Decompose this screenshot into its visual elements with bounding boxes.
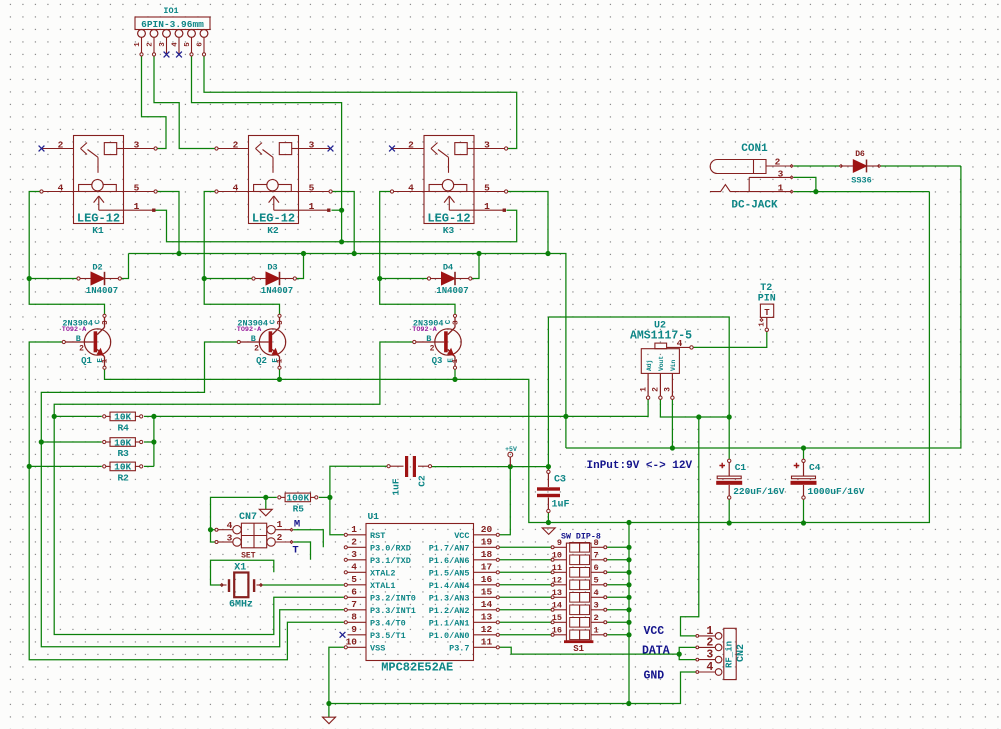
- svg-text:16: 16: [552, 626, 562, 636]
- svg-text:5: 5: [134, 182, 140, 193]
- svg-text:T2: T2: [760, 283, 772, 294]
- svg-text:5: 5: [594, 576, 599, 586]
- svg-text:P3.1/TXD: P3.1/TXD: [370, 556, 411, 566]
- svg-text:5: 5: [351, 574, 357, 585]
- svg-text:CON1: CON1: [741, 143, 768, 155]
- svg-text:R2: R2: [117, 472, 129, 483]
- svg-text:3: 3: [102, 320, 110, 325]
- svg-text:3: 3: [594, 601, 599, 611]
- svg-text:M: M: [294, 519, 300, 531]
- svg-text:D2: D2: [92, 262, 102, 272]
- svg-text:6: 6: [196, 42, 204, 47]
- svg-text:B: B: [76, 334, 81, 344]
- svg-text:C: C: [445, 319, 453, 324]
- svg-text:CN2: CN2: [736, 644, 747, 662]
- svg-text:C4: C4: [809, 462, 821, 473]
- svg-text:11: 11: [481, 637, 493, 648]
- svg-text:6: 6: [351, 587, 357, 598]
- svg-text:3: 3: [227, 532, 233, 543]
- svg-text:VSS: VSS: [370, 644, 385, 654]
- svg-text:10: 10: [346, 637, 358, 648]
- svg-text:C: C: [269, 319, 277, 324]
- svg-text:1000uF/16V: 1000uF/16V: [808, 486, 865, 497]
- svg-text:2: 2: [146, 42, 154, 47]
- svg-text:K1: K1: [92, 225, 104, 236]
- svg-text:P1.1/AN1: P1.1/AN1: [429, 619, 470, 629]
- svg-text:R4: R4: [117, 422, 129, 433]
- svg-text:5: 5: [484, 182, 490, 193]
- svg-text:R3: R3: [117, 448, 129, 459]
- svg-text:2: 2: [58, 139, 64, 150]
- svg-text:2: 2: [277, 532, 283, 543]
- svg-text:14: 14: [481, 599, 493, 610]
- svg-text:220uF/16V: 220uF/16V: [733, 486, 785, 497]
- svg-text:8: 8: [351, 612, 357, 623]
- svg-text:+5V: +5V: [505, 446, 517, 453]
- svg-text:2: 2: [233, 139, 239, 150]
- svg-text:SET: SET: [241, 552, 256, 561]
- svg-text:12: 12: [552, 576, 562, 586]
- svg-text:5: 5: [309, 182, 315, 193]
- svg-text:4: 4: [677, 338, 683, 349]
- svg-text:C3: C3: [554, 475, 566, 486]
- svg-text:4: 4: [233, 182, 239, 193]
- svg-text:MPC82E52AE: MPC82E52AE: [381, 660, 453, 674]
- svg-text:4: 4: [351, 562, 357, 573]
- svg-text:1N4007: 1N4007: [261, 286, 293, 296]
- svg-text:TO92-A: TO92-A: [62, 326, 87, 334]
- svg-text:U1: U1: [368, 511, 380, 522]
- svg-text:Adj: Adj: [646, 360, 653, 371]
- svg-text:P1.7/AN7: P1.7/AN7: [429, 544, 470, 554]
- svg-text:TO92-A: TO92-A: [237, 326, 262, 334]
- svg-text:10K: 10K: [114, 412, 131, 423]
- svg-text:Q2: Q2: [256, 356, 267, 366]
- svg-text:4: 4: [706, 661, 713, 674]
- svg-text:P3.3/INT1: P3.3/INT1: [370, 606, 416, 616]
- svg-text:1: 1: [452, 358, 460, 363]
- svg-text:17: 17: [481, 562, 493, 573]
- svg-text:P1.0/AN0: P1.0/AN0: [429, 631, 470, 641]
- svg-text:1: 1: [639, 387, 648, 392]
- svg-text:3: 3: [351, 549, 357, 560]
- svg-text:5: 5: [184, 42, 192, 47]
- svg-text:19: 19: [481, 537, 493, 548]
- svg-text:20: 20: [481, 524, 493, 535]
- svg-text:DC-JACK: DC-JACK: [731, 200, 778, 212]
- svg-text:AMS1117-5: AMS1117-5: [630, 329, 692, 342]
- svg-text:XTAL1: XTAL1: [370, 581, 396, 591]
- svg-text:1: 1: [594, 626, 599, 636]
- svg-text:13: 13: [481, 612, 493, 623]
- svg-text:T: T: [292, 544, 298, 556]
- svg-text:2: 2: [775, 156, 781, 167]
- svg-text:3: 3: [453, 320, 461, 325]
- svg-text:Q3: Q3: [432, 356, 443, 366]
- svg-text:3: 3: [159, 42, 167, 47]
- svg-text:7: 7: [594, 551, 599, 561]
- svg-text:10: 10: [552, 551, 562, 561]
- svg-text:R5: R5: [293, 503, 305, 514]
- svg-text:1N4007: 1N4007: [436, 286, 468, 296]
- svg-text:8: 8: [594, 538, 599, 548]
- svg-text:4: 4: [227, 520, 233, 531]
- svg-text:CN7: CN7: [239, 512, 257, 523]
- svg-text:4: 4: [408, 182, 414, 193]
- svg-text:P3.0/RXD: P3.0/RXD: [370, 544, 411, 554]
- svg-text:4: 4: [171, 42, 179, 47]
- svg-text:RF_in: RF_in: [725, 641, 735, 668]
- svg-text:3: 3: [778, 169, 784, 180]
- svg-text:D3: D3: [267, 262, 277, 272]
- svg-text:7: 7: [351, 599, 357, 610]
- svg-text:B: B: [426, 334, 431, 344]
- svg-text:RST: RST: [370, 531, 385, 541]
- svg-text:4: 4: [594, 588, 599, 598]
- svg-text:4: 4: [58, 182, 64, 193]
- svg-text:C: C: [94, 319, 102, 324]
- svg-text:16: 16: [481, 574, 493, 585]
- svg-text:2: 2: [79, 344, 84, 353]
- svg-text:3: 3: [309, 139, 315, 150]
- svg-text:P1.2/AN2: P1.2/AN2: [429, 606, 470, 616]
- svg-text:1uF: 1uF: [551, 499, 569, 510]
- svg-text:1: 1: [759, 322, 767, 327]
- svg-text:1: 1: [134, 201, 140, 212]
- svg-text:2: 2: [430, 344, 435, 353]
- svg-text:18: 18: [481, 549, 493, 560]
- svg-text:P3.7: P3.7: [449, 644, 469, 654]
- svg-text:13: 13: [552, 588, 562, 598]
- svg-text:9: 9: [557, 538, 562, 548]
- svg-text:9: 9: [351, 624, 357, 635]
- svg-text:K2: K2: [267, 225, 279, 236]
- svg-text:6MHz: 6MHz: [229, 600, 253, 611]
- svg-text:1: 1: [351, 524, 357, 535]
- svg-text:B: B: [251, 334, 256, 344]
- svg-text:K3: K3: [443, 225, 455, 236]
- svg-text:100K: 100K: [286, 493, 309, 504]
- svg-text:P3.5/T1: P3.5/T1: [370, 631, 406, 641]
- svg-text:3: 3: [484, 139, 490, 150]
- svg-text:2: 2: [594, 613, 599, 623]
- svg-text:PIN: PIN: [758, 294, 776, 305]
- svg-text:1: 1: [309, 201, 315, 212]
- svg-text:1: 1: [102, 358, 110, 363]
- svg-text:1: 1: [484, 201, 490, 212]
- svg-text:1: 1: [277, 519, 283, 530]
- svg-text:2: 2: [652, 387, 661, 392]
- svg-text:VCC: VCC: [454, 531, 469, 541]
- svg-text:LEG-12: LEG-12: [427, 211, 470, 225]
- svg-text:DATA: DATA: [642, 645, 670, 658]
- svg-text:1: 1: [277, 358, 285, 363]
- svg-text:Vin: Vin: [670, 359, 677, 371]
- svg-text:14: 14: [552, 601, 562, 611]
- svg-text:C2: C2: [417, 475, 428, 487]
- svg-text:10K: 10K: [114, 462, 131, 473]
- svg-text:LEG-12: LEG-12: [77, 211, 120, 225]
- svg-text:1: 1: [134, 42, 142, 47]
- svg-text:P1.5/AN5: P1.5/AN5: [429, 569, 470, 579]
- svg-text:3: 3: [277, 320, 285, 325]
- svg-text:1uF: 1uF: [391, 478, 402, 495]
- svg-text:P3.2/INT0: P3.2/INT0: [370, 594, 416, 604]
- svg-text:1: 1: [778, 182, 784, 193]
- svg-text:SS36: SS36: [851, 176, 871, 186]
- svg-text:D6: D6: [855, 150, 865, 159]
- svg-text:P1.4/AN4: P1.4/AN4: [429, 581, 470, 591]
- svg-text:InPut:9V <-> 12V: InPut:9V <-> 12V: [587, 460, 693, 472]
- svg-text:Vout: Vout: [658, 356, 665, 371]
- svg-text:3: 3: [134, 139, 140, 150]
- svg-text:3: 3: [706, 649, 713, 662]
- svg-text:12: 12: [481, 624, 493, 635]
- svg-text:GND: GND: [644, 670, 665, 683]
- svg-text:P1.6/AN6: P1.6/AN6: [429, 556, 470, 566]
- svg-text:15: 15: [481, 587, 493, 598]
- svg-text:3: 3: [664, 387, 673, 392]
- svg-text:P3.4/T0: P3.4/T0: [370, 619, 406, 629]
- svg-text:Q1: Q1: [81, 356, 92, 366]
- svg-text:S1: S1: [573, 644, 584, 654]
- svg-text:VCC: VCC: [644, 625, 665, 638]
- svg-text:15: 15: [552, 613, 562, 623]
- svg-text:2: 2: [254, 344, 259, 353]
- svg-text:LEG-12: LEG-12: [252, 211, 295, 225]
- svg-text:D4: D4: [443, 262, 453, 272]
- svg-text:2: 2: [408, 139, 414, 150]
- svg-text:XTAL2: XTAL2: [370, 569, 396, 579]
- svg-text:2: 2: [351, 537, 357, 548]
- svg-text:1N4007: 1N4007: [86, 286, 118, 296]
- svg-text:11: 11: [552, 563, 562, 573]
- svg-text:6PIN-3.96mm: 6PIN-3.96mm: [141, 19, 204, 30]
- svg-text:10K: 10K: [114, 437, 131, 448]
- svg-text:TO92-A: TO92-A: [412, 326, 437, 334]
- svg-text:IO1: IO1: [163, 6, 178, 16]
- svg-text:P1.3/AN3: P1.3/AN3: [429, 594, 470, 604]
- svg-text:T: T: [764, 308, 770, 318]
- svg-text:C1: C1: [735, 462, 747, 473]
- svg-text:6: 6: [594, 563, 599, 573]
- svg-text:2: 2: [706, 636, 713, 649]
